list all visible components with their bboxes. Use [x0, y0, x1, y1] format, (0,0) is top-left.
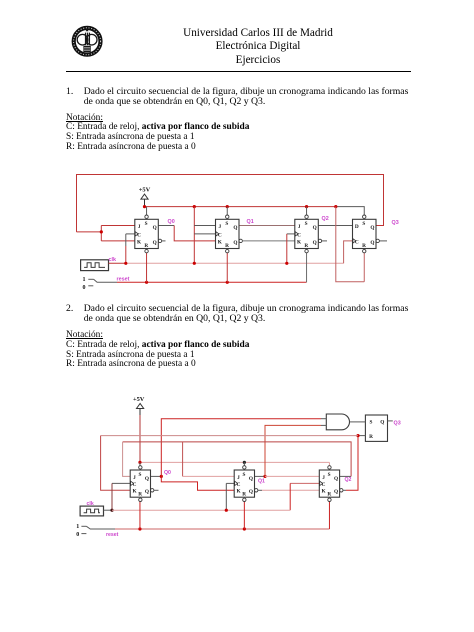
- svg-text:R: R: [242, 492, 246, 498]
- svg-text:R: R: [138, 492, 142, 498]
- svg-text:S: S: [370, 419, 373, 425]
- svg-text:Q1: Q1: [247, 219, 254, 225]
- svg-text:R: R: [225, 243, 229, 249]
- svg-text:Q: Q: [313, 240, 317, 246]
- svg-text:reset: reset: [106, 532, 119, 538]
- svg-text:S: S: [242, 472, 245, 478]
- svg-text:J: J: [298, 224, 301, 230]
- svg-text:+5V: +5V: [139, 187, 151, 194]
- svg-text:R: R: [369, 434, 373, 440]
- svg-text:Q: Q: [249, 476, 253, 482]
- svg-text:0: 0: [76, 532, 79, 538]
- svg-text:J: J: [237, 475, 240, 481]
- svg-text:Q: Q: [370, 240, 374, 246]
- svg-text:R: R: [144, 243, 148, 249]
- svg-text:Q2: Q2: [322, 216, 329, 222]
- svg-text:Q: Q: [153, 240, 157, 246]
- svg-text:+5V: +5V: [133, 396, 145, 403]
- svg-text:Q: Q: [380, 419, 384, 425]
- svg-text:Q: Q: [334, 476, 338, 482]
- svg-text:Q2: Q2: [345, 477, 352, 483]
- svg-text:S: S: [362, 221, 365, 227]
- svg-text:Q1: Q1: [258, 479, 265, 485]
- svg-text:0: 0: [83, 285, 86, 291]
- svg-text:Q: Q: [370, 225, 374, 231]
- svg-text:Q0: Q0: [164, 470, 171, 476]
- svg-text:J: J: [218, 224, 221, 230]
- svg-text:1: 1: [76, 524, 79, 530]
- svg-text:Q: Q: [334, 489, 338, 495]
- svg-text:S: S: [225, 221, 228, 227]
- svg-text:Q: Q: [145, 476, 149, 482]
- svg-text:Q3: Q3: [392, 220, 399, 226]
- svg-text:Q: Q: [233, 240, 237, 246]
- svg-text:S: S: [328, 472, 331, 478]
- svg-text:Q: Q: [153, 225, 157, 231]
- svg-text:Q: Q: [145, 489, 149, 495]
- svg-text:J: J: [133, 475, 136, 481]
- svg-text:Q0: Q0: [168, 219, 175, 225]
- svg-text:Q3: Q3: [394, 420, 401, 426]
- svg-text:clk: clk: [109, 257, 117, 263]
- svg-text:Q: Q: [313, 225, 317, 231]
- svg-text:Q: Q: [249, 489, 253, 495]
- svg-text:J: J: [138, 224, 141, 230]
- svg-text:Q: Q: [233, 225, 237, 231]
- svg-text:J: J: [322, 475, 325, 481]
- svg-text:D: D: [355, 224, 359, 230]
- svg-text:R: R: [362, 243, 366, 249]
- svg-text:R: R: [327, 492, 331, 498]
- svg-text:S: S: [145, 221, 148, 227]
- svg-text:R: R: [304, 243, 308, 249]
- svg-text:S: S: [138, 472, 141, 478]
- svg-text:1: 1: [83, 277, 86, 283]
- svg-text:clk: clk: [87, 501, 94, 507]
- svg-text:reset: reset: [117, 277, 130, 283]
- svg-text:S: S: [305, 221, 308, 227]
